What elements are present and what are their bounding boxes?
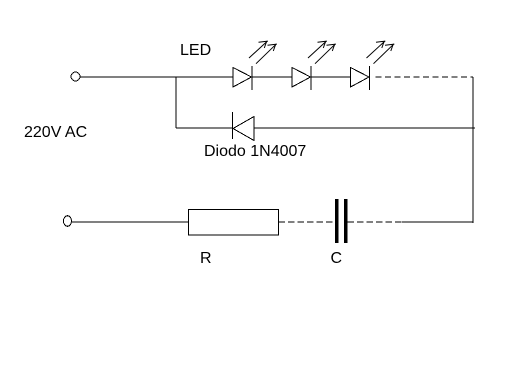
wire T1 to LED chain (80, 76, 233, 78)
svg-text:C: C (331, 250, 343, 267)
svg-text:Diodo 1N4007: Diodo 1N4007 (204, 143, 306, 160)
svg-text:R: R (200, 250, 212, 267)
dashed wire capacitor to right rail (348, 221, 403, 223)
wire D2 to D3 (311, 76, 350, 78)
terminal T2 (bottom AC input) (64, 216, 72, 227)
wire bottom right to rail (402, 221, 474, 223)
wire diode branch left (176, 127, 233, 129)
terminal T1 (top AC input) (71, 72, 80, 81)
svg-text:LED: LED (180, 42, 211, 59)
resistor R body (189, 210, 279, 236)
wire junction drop to diode branch (175, 77, 177, 128)
LED D1 (233, 41, 277, 90)
LED D2 (292, 41, 336, 90)
LED D3 (351, 41, 395, 90)
wire D1 to D2 (252, 76, 292, 78)
diode D4 1N4007 (233, 112, 255, 141)
dashed wire D3 to right rail (376, 76, 474, 78)
capacitor C plates (335, 199, 348, 243)
wire right rail vertical (472, 77, 474, 223)
wire T2 to resistor (72, 221, 189, 223)
dashed wire resistor to capacitor (279, 221, 335, 223)
svg-text:220V AC: 220V AC (24, 124, 87, 141)
wire diode branch right (254, 127, 475, 129)
